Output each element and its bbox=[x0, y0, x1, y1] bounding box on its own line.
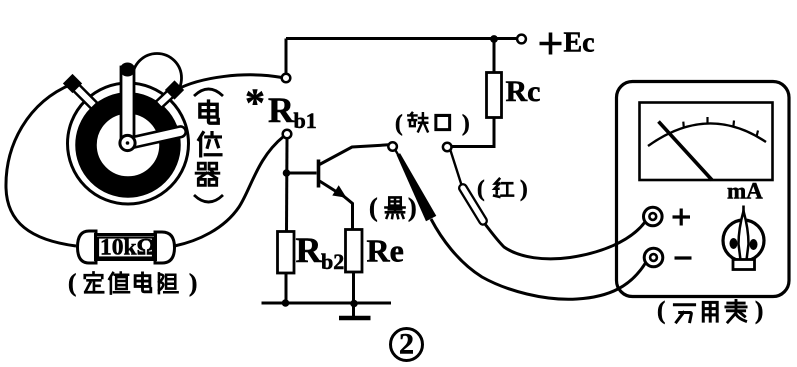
black probe lead line bbox=[396, 150, 401, 158]
wire: Rb1 lower terminal down to ground rail bbox=[285, 138, 289, 231]
junction at base node bbox=[283, 169, 291, 177]
svg-text:mA: mA bbox=[727, 179, 763, 204]
meter scale ticks bbox=[683, 117, 758, 136]
potentiometer left lug terminal square bbox=[63, 74, 82, 93]
transistor Q1 emitter bbox=[320, 181, 353, 230]
wire: right lug to Rb1 upper terminal bbox=[176, 75, 282, 90]
svg-text:2: 2 bbox=[399, 328, 414, 361]
label +Ec bbox=[540, 28, 595, 59]
multimeter body bbox=[617, 82, 790, 297]
resistor 10k body bbox=[96, 235, 156, 260]
black probe body bbox=[397, 153, 437, 221]
svg-text:R: R bbox=[268, 90, 295, 130]
svg-text:Ec: Ec bbox=[564, 28, 595, 59]
svg-text:(: ( bbox=[395, 111, 403, 136]
wire: rail left drop to Rb1 gap bbox=[285, 39, 288, 74]
svg-text:Rc: Rc bbox=[506, 75, 541, 108]
meter scale arc bbox=[648, 123, 766, 146]
svg-text:): ) bbox=[520, 176, 528, 201]
label (multimeter) bbox=[657, 298, 763, 325]
terminal +Ec bbox=[517, 35, 526, 44]
figure number 2 badge bbox=[391, 328, 423, 361]
label (red) bbox=[477, 176, 528, 201]
svg-text:): ) bbox=[189, 270, 197, 297]
wire: ground rail bbox=[262, 302, 392, 305]
junction Re-rail bbox=[350, 300, 358, 308]
potentiometer wiper arm bbox=[127, 125, 187, 148]
resistor 10k left cap bbox=[78, 231, 97, 263]
potentiometer ear circle (rear body) bbox=[133, 54, 182, 103]
wire: base bbox=[287, 172, 317, 175]
wire: left lug big loop to 10k resistor bbox=[6, 84, 76, 246]
resistor Rb2 bbox=[278, 232, 295, 274]
potentiometer right lug strip bbox=[156, 87, 178, 108]
potentiometer body outer circle bbox=[68, 83, 189, 204]
label *Rb1 bbox=[245, 80, 317, 133]
resistor Rc bbox=[487, 73, 502, 118]
potentiometer hub bbox=[120, 135, 135, 150]
wire: black probe to minus terminal bbox=[431, 219, 646, 299]
transistor Q1 collector bbox=[320, 145, 389, 165]
wire: red probe to plus terminal bbox=[485, 222, 645, 259]
transistor Q1 emitter arrow bbox=[332, 185, 346, 198]
minus terminal bbox=[644, 248, 691, 267]
svg-text:): ) bbox=[755, 298, 763, 325]
wire: 10k resistor to Rb1 lower terminal bbox=[175, 137, 284, 247]
svg-text:(: ( bbox=[369, 193, 378, 222]
svg-text:Re: Re bbox=[367, 233, 404, 269]
ground bar bbox=[339, 316, 371, 321]
transistor Q1 base bar bbox=[317, 160, 321, 188]
junction Rb2-rail bbox=[282, 299, 290, 307]
label Rb2 bbox=[296, 230, 345, 274]
label (fixed-value resistor) bbox=[68, 270, 197, 297]
wire: rail to Rc bbox=[493, 39, 496, 73]
range knob bbox=[723, 206, 764, 270]
red probe body bbox=[458, 183, 488, 226]
potentiometer right lug terminal square bbox=[165, 80, 184, 99]
potentiometer black ring bbox=[86, 103, 170, 187]
node: collector gap terminal bbox=[388, 142, 397, 151]
svg-text:b2: b2 bbox=[321, 249, 344, 274]
potentiometer shaft cap bbox=[120, 63, 135, 77]
plus terminal bbox=[644, 207, 691, 226]
red probe lead line bbox=[451, 151, 463, 187]
svg-text:10kΩ: 10kΩ bbox=[100, 235, 155, 261]
resistor 10k label box bbox=[98, 238, 153, 258]
wire: Re to ground bbox=[352, 272, 355, 318]
wire: top supply rail bbox=[286, 37, 518, 40]
potentiometer left lug strip bbox=[72, 83, 98, 109]
svg-text:(: ( bbox=[657, 298, 665, 325]
node: Rb1 lower terminal bbox=[283, 130, 292, 139]
svg-text:b1: b1 bbox=[294, 108, 317, 133]
node: gap right terminal bbox=[443, 143, 452, 152]
junction at +Ec rail bbox=[490, 35, 498, 43]
node: Rb1 upper terminal bbox=[282, 74, 291, 83]
resistor Re bbox=[346, 230, 363, 273]
potentiometer shaft bbox=[121, 67, 134, 140]
label (black) bbox=[369, 193, 417, 222]
label (gap) bbox=[395, 111, 470, 136]
svg-text:): ) bbox=[408, 193, 417, 222]
meter needle bbox=[659, 122, 713, 181]
svg-text:): ) bbox=[462, 111, 470, 136]
svg-text:(: ( bbox=[477, 176, 485, 201]
resistor 10k right cap bbox=[155, 232, 175, 263]
meter display bbox=[640, 103, 773, 181]
wire: Rc to gap right terminal bbox=[452, 118, 495, 147]
svg-text:(: ( bbox=[68, 270, 76, 297]
wire: Rb2 to ground rail bbox=[285, 273, 288, 303]
label (electric-potentiometer) vertical text bbox=[194, 89, 223, 202]
svg-text:R: R bbox=[296, 230, 323, 270]
svg-text:*: * bbox=[245, 80, 265, 125]
